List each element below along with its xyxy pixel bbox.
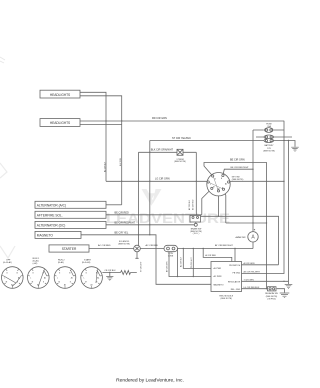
svg-text:BE CIR GRN: BE CIR GRN bbox=[230, 159, 245, 162]
svg-text:(G+M+A1): (G+M+A1) bbox=[3, 261, 12, 264]
svg-text:BE CIR RED: BE CIR RED bbox=[193, 199, 195, 210]
svg-text:L: L bbox=[30, 278, 31, 280]
svg-text:BATTERY: BATTERY bbox=[264, 144, 274, 147]
svg-text:(B+A1): (B+A1) bbox=[58, 261, 64, 264]
svg-text:AC CIR RED: AC CIR RED bbox=[146, 244, 159, 247]
svg-text:( N.O. ): ( N.O. ) bbox=[193, 233, 200, 235]
svg-text:PB CIR WHT: PB CIR WHT bbox=[191, 257, 193, 268]
svg-text:LG CIR RED/BLK: LG CIR RED/BLK bbox=[244, 287, 260, 289]
svg-text:(B+S+A1): (B+S+A1) bbox=[82, 261, 91, 264]
svg-text:BLK CIR GRN/WHT: BLK CIR GRN/WHT bbox=[151, 149, 174, 152]
svg-text:AF CIR GRN: AF CIR GRN bbox=[166, 261, 169, 272]
svg-text:AI CIR RED: AI CIR RED bbox=[205, 254, 216, 257]
svg-text:BE CIR RED: BE CIR RED bbox=[115, 211, 130, 214]
svg-text:ALTERNATOR (A/C): ALTERNATOR (A/C) bbox=[37, 204, 66, 208]
svg-text:(SEE NOTE): (SEE NOTE) bbox=[118, 244, 130, 246]
svg-text:A1: A1 bbox=[71, 277, 73, 280]
svg-text:BE CIR RED/WHT: BE CIR RED/WHT bbox=[231, 167, 250, 169]
svg-text:( IN PKG): ( IN PKG) bbox=[267, 298, 276, 300]
svg-text:(SEE NOTE): (SEE NOTE) bbox=[174, 161, 186, 163]
svg-text:A1: A1 bbox=[44, 277, 46, 280]
svg-text:A2: A2 bbox=[218, 188, 220, 191]
svg-text:A2: A2 bbox=[91, 283, 93, 286]
svg-text:CB CIR BLK: CB CIR BLK bbox=[105, 270, 117, 272]
svg-text:A2: A2 bbox=[64, 283, 66, 286]
svg-text:L: L bbox=[4, 278, 5, 280]
svg-text:(+A2): (+A2) bbox=[33, 262, 38, 265]
svg-text:MAGNETO: MAGNETO bbox=[214, 283, 225, 286]
svg-text:AC CIR BLK: AC CIR BLK bbox=[104, 161, 107, 172]
svg-text:REL. GND: REL. GND bbox=[231, 289, 241, 291]
svg-text:A1: A1 bbox=[97, 277, 99, 280]
svg-text:AI CIR GRN: AI CIR GRN bbox=[244, 262, 255, 265]
svg-text:LG CIR GRN: LG CIR GRN bbox=[155, 178, 170, 181]
svg-text:AC CIR RED: AC CIR RED bbox=[98, 244, 111, 247]
svg-text:PB GND: PB GND bbox=[233, 273, 241, 275]
svg-text:L: L bbox=[57, 278, 58, 280]
svg-text:BE CIR RED/WHT: BE CIR RED/WHT bbox=[115, 221, 136, 224]
svg-text:AL PWR: AL PWR bbox=[214, 267, 222, 270]
svg-text:A2: A2 bbox=[37, 283, 39, 286]
svg-text:ST CIR WHT: ST CIR WHT bbox=[141, 261, 143, 272]
svg-text:STARTER: STARTER bbox=[62, 247, 77, 251]
svg-text:L: L bbox=[210, 184, 211, 186]
svg-text:(SEE NOTE): (SEE NOTE) bbox=[220, 298, 232, 300]
svg-text:RD CIR GRN: RD CIR GRN bbox=[152, 117, 167, 120]
svg-text:REGULATOR: REGULATOR bbox=[228, 281, 241, 284]
svg-text:L: L bbox=[84, 278, 85, 280]
svg-text:(SEE NOTE): (SEE NOTE) bbox=[232, 179, 244, 181]
svg-text:A1: A1 bbox=[225, 183, 227, 186]
svg-text:AFTERFIRE SOL.: AFTERFIRE SOL. bbox=[37, 214, 63, 218]
svg-text:HEADLIGHTS: HEADLIGHTS bbox=[50, 121, 70, 125]
svg-text:BLK GRN: BLK GRN bbox=[120, 157, 122, 166]
svg-text:A1: A1 bbox=[18, 277, 20, 280]
svg-text:AT CIR RED/WHT: AT CIR RED/WHT bbox=[215, 244, 233, 247]
svg-text:AC CIR BLK: AC CIR BLK bbox=[188, 199, 191, 210]
svg-text:ST CIR YEL/BLK: ST CIR YEL/BLK bbox=[172, 137, 191, 140]
svg-text:RELAY/AI SW: RELAY/AI SW bbox=[265, 292, 278, 295]
svg-text:PB SWITCH: PB SWITCH bbox=[229, 265, 241, 267]
svg-text:AG CIR YEL/WHT: AG CIR YEL/WHT bbox=[244, 271, 261, 274]
svg-text:T CIR GRN: T CIR GRN bbox=[244, 279, 255, 281]
svg-text:Rendered by LeadVenture, Inc.: Rendered by LeadVenture, Inc. bbox=[116, 378, 184, 384]
svg-text:HEADLIGHTS: HEADLIGHTS bbox=[50, 93, 70, 97]
svg-text:AC PWR: AC PWR bbox=[214, 275, 223, 278]
svg-text:CONN: CONN bbox=[168, 255, 174, 257]
svg-text:MAGNETO: MAGNETO bbox=[37, 234, 54, 238]
svg-text:ALTERNATOR (DC): ALTERNATOR (DC) bbox=[37, 224, 66, 228]
svg-text:A2: A2 bbox=[11, 283, 13, 286]
svg-text:BE CIR YEL: BE CIR YEL bbox=[115, 231, 129, 234]
svg-text:(SEE NOTE): (SEE NOTE) bbox=[263, 150, 275, 152]
svg-text:AMMETER: AMMETER bbox=[236, 236, 247, 239]
svg-text:AC CIR BLK: AC CIR BLK bbox=[180, 256, 183, 267]
